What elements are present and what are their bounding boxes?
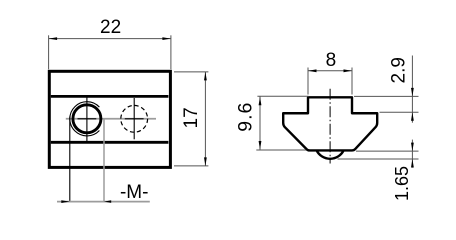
hole H2 center cross horizontal — [125, 118, 144, 120]
chamfer line top — [51, 95, 169, 98]
dimension 1.65: bottom arrow (outside, pointing up) — [411, 159, 414, 168]
svg-text:1.65: 1.65 — [392, 166, 412, 201]
hole H1 tapped hole circle — [73, 105, 101, 133]
body outline — [49, 71, 170, 167]
profile outline — [283, 97, 377, 150]
dimension 1.65: dimension line — [411, 140, 413, 168]
svg-text:-M-: -M- — [120, 182, 148, 203]
dimension 8: right arrow — [344, 69, 353, 72]
dimension 22: right arrow — [162, 37, 171, 40]
dimension 17: dimension line — [204, 72, 206, 166]
hole H1 thread major-diameter arc — [70, 102, 100, 136]
dimension 8: left arrow — [308, 69, 317, 72]
dimension -M-: dimension line — [57, 201, 150, 203]
dimension -M-: extension line left (black) — [69, 117, 71, 203]
svg-text:8: 8 — [326, 50, 337, 71]
dimension 8: dimension line — [308, 70, 352, 72]
dimension 2.9: dimension line — [411, 56, 413, 123]
dimension 17: extension line bottom — [174, 165, 208, 167]
dimension 17: bottom arrow — [204, 157, 207, 166]
dimension 8: extension line right — [351, 68, 353, 95]
dimension 1.65: extension line bottom — [338, 158, 419, 160]
dimension 8: extension line left — [307, 68, 309, 95]
dimension -M-: right arrow (outside, pointing left) — [104, 200, 111, 203]
dimension 2.9: extension line top — [354, 95, 419, 97]
hole H1 center cross horizontal — [78, 118, 97, 120]
chamfer line bottom — [51, 141, 169, 144]
horizontal centerline — [66, 118, 156, 120]
dimension 9.6: bottom arrow — [259, 141, 262, 150]
dimension 1.65: top arrow (outside, pointing down) — [411, 143, 414, 152]
hole H2 vertical centerline — [133, 98, 135, 139]
dimension 17: extension line top — [174, 71, 208, 73]
svg-text:17: 17 — [181, 107, 202, 128]
dimension 9.6: extension line top — [257, 95, 308, 97]
dimension 22: extension line right — [170, 35, 172, 69]
vertical centerline (dash-dot) — [329, 89, 331, 164]
dimension 9.6: top arrow — [259, 97, 262, 106]
dimension 2.9: extension line bottom — [380, 111, 419, 113]
dimension -M-: left arrow (outside, pointing right) — [61, 200, 70, 203]
dimension 9.6: dimension line — [259, 96, 261, 150]
svg-text:22: 22 — [100, 17, 121, 38]
hole H1 vertical centerline — [86, 97, 88, 143]
dimension 9.6: extension line bottom — [256, 149, 306, 151]
dimension 1.65: extension line top — [356, 150, 419, 152]
dimension 22: extension line left — [48, 35, 50, 69]
svg-text:2.9: 2.9 — [389, 57, 410, 83]
dimension 17: top arrow — [204, 72, 207, 81]
dimension -M-: extension line right (gray) — [103, 120, 105, 203]
dimension 2.9: bottom arrow (outside, pointing up) — [411, 112, 414, 121]
svg-text:9.6: 9.6 — [235, 102, 257, 132]
dimension 22: left arrow — [49, 37, 58, 40]
dimension 2.9: top arrow (outside, pointing down) — [411, 88, 414, 97]
dimension 22: dimension line — [49, 38, 171, 40]
hole H2 hidden circle (dashed) — [121, 105, 148, 132]
ball detent arc at bottom — [317, 150, 344, 158]
